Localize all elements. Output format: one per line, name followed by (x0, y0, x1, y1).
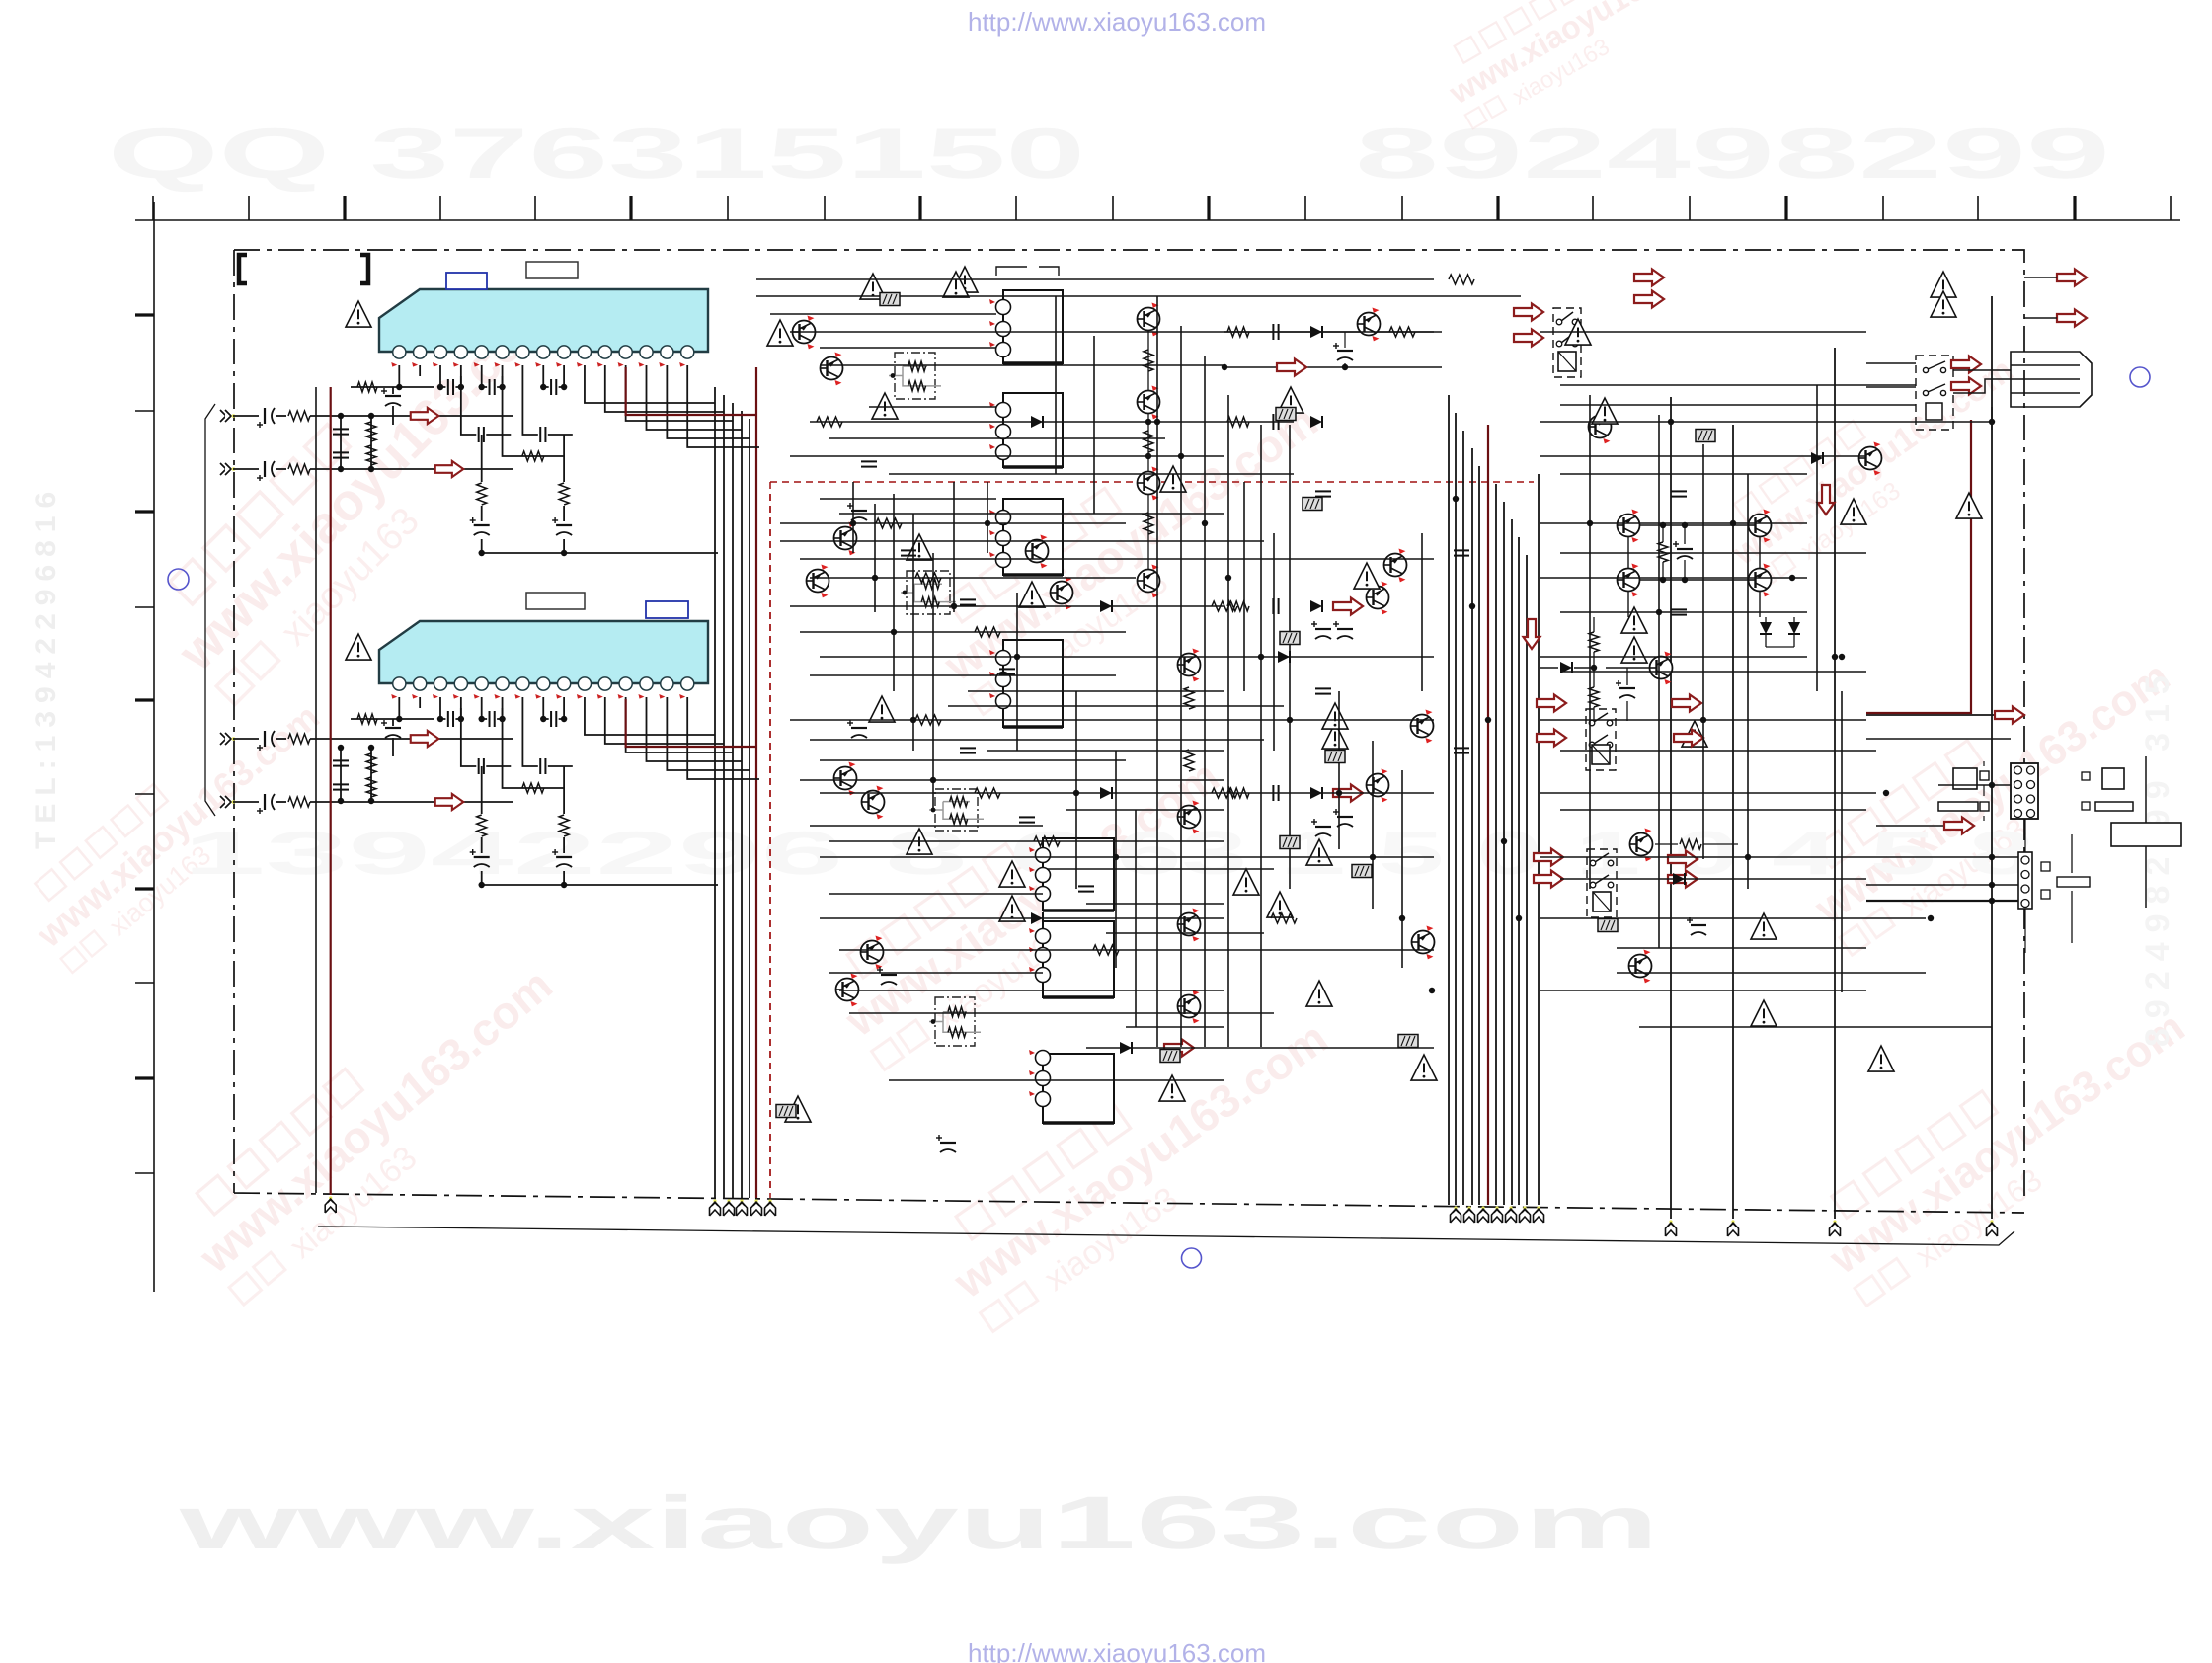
junction (1883, 790, 1889, 796)
wire (820, 856, 1434, 858)
connector chevron (1534, 1206, 1544, 1223)
transistor Q (1178, 990, 1201, 1024)
connector chevron (1464, 1206, 1475, 1223)
resistor (477, 483, 487, 505)
connector header CN9 (4pin) (2018, 852, 2032, 909)
resistor (477, 815, 487, 836)
coupled resistor network (dash-dot box) (889, 353, 941, 399)
wire (2145, 756, 2147, 908)
junction (561, 882, 567, 888)
red arrow (1514, 304, 1543, 321)
wire (481, 435, 483, 553)
junction (437, 716, 443, 722)
capacitor (1671, 491, 1687, 496)
red arrow (2057, 310, 2087, 327)
capacitor (electrolytic) (552, 517, 572, 535)
resistor (522, 451, 544, 461)
bar resistor (2095, 802, 2133, 811)
switch (1923, 384, 1945, 396)
wire (398, 365, 400, 376)
IC pin 13 (640, 677, 653, 690)
wire (1538, 474, 1540, 1205)
capacitor (1273, 598, 1278, 614)
transistor Q (793, 316, 816, 350)
junction (1287, 717, 1293, 723)
pad (2082, 772, 2090, 780)
red arrow (435, 794, 464, 810)
wire (392, 719, 394, 756)
wire (790, 331, 1434, 333)
resistor (288, 464, 310, 474)
connector chevron (1520, 1206, 1531, 1223)
wire (686, 365, 688, 376)
IC pin 1 (393, 346, 406, 358)
warning triangle (860, 274, 886, 299)
red arrow (411, 408, 439, 424)
registration circle (168, 569, 189, 590)
junction (1928, 915, 1934, 921)
junction (1178, 453, 1184, 459)
wire (686, 697, 688, 708)
resistor (fusible) (1276, 408, 1296, 421)
capacitor (999, 669, 1015, 673)
wire (B+ red) (330, 387, 332, 1195)
junction (479, 384, 485, 390)
resistor (fusible) (1696, 430, 1715, 442)
capacitor (electrolytic) (257, 731, 275, 751)
resistor (950, 797, 968, 807)
wire (1224, 331, 1442, 333)
red arrow (1277, 359, 1306, 376)
resistor (1449, 275, 1474, 284)
wire (1540, 577, 1807, 579)
transistor Q (1138, 467, 1160, 501)
wire (1540, 792, 1876, 794)
IC pin 8 (537, 346, 550, 358)
wire (1540, 917, 1926, 919)
warning triangle (767, 320, 793, 346)
red arrow (411, 731, 439, 747)
wire (800, 631, 1126, 633)
IC module block (1029, 921, 1114, 997)
warning triangle (1565, 319, 1591, 345)
red arrow (1951, 356, 1981, 373)
transistor Q (1026, 535, 1049, 569)
wire (839, 513, 1224, 515)
wire (B+ red) (626, 699, 756, 747)
junction (1730, 520, 1736, 526)
junction (1700, 717, 1706, 723)
wire (503, 708, 565, 788)
junction (499, 384, 505, 390)
IC pin 10 (578, 677, 591, 690)
label box (blue) (646, 601, 688, 618)
resistor (357, 382, 377, 392)
junction (1745, 854, 1751, 860)
wire (584, 697, 586, 708)
wire (987, 482, 988, 553)
ruler tick (135, 698, 154, 701)
capacitor (1273, 324, 1278, 340)
red arrow (1514, 330, 1543, 347)
connector chevron (1492, 1206, 1503, 1223)
transistor Q (1411, 710, 1434, 744)
wire (482, 884, 718, 886)
warning triangle (999, 896, 1025, 921)
junction (561, 716, 567, 722)
wire (276, 738, 286, 740)
IC module block (989, 640, 1063, 727)
ruler tick (439, 196, 441, 220)
resistor (950, 814, 968, 824)
wire (1606, 667, 1649, 669)
junction (1113, 854, 1119, 860)
connector chevron (737, 1199, 748, 1216)
watermark (1801, 976, 2212, 1315)
capacitor (1454, 748, 1469, 752)
wire (1540, 990, 1866, 991)
connector chevron (751, 1199, 762, 1216)
wire (666, 365, 668, 376)
junction (396, 716, 402, 722)
big block (2111, 823, 2181, 846)
input connector (220, 796, 235, 808)
coupled resistor network (dash-dot box) (929, 789, 984, 831)
ruler tick (1977, 196, 1979, 220)
red arrow (1668, 851, 1698, 868)
warning triangle (1621, 637, 1647, 663)
red arrow (1944, 818, 1974, 834)
wire (1866, 363, 1916, 387)
wire (502, 697, 504, 708)
ruler tick (1784, 196, 1787, 220)
wire (820, 656, 1434, 658)
resistor (1212, 788, 1237, 798)
wire (800, 779, 1224, 781)
wire (667, 376, 750, 438)
ruler tick (135, 1076, 154, 1079)
transistor Q (1178, 801, 1201, 834)
wire (741, 411, 743, 1198)
watermark (1710, 330, 2037, 598)
junction (1656, 609, 1662, 615)
wire (666, 697, 668, 708)
ruler tick (135, 313, 154, 316)
wire (419, 697, 421, 708)
wire (780, 522, 1126, 524)
relay (dashed box) (1587, 849, 1617, 917)
wire (340, 416, 342, 469)
wire (1180, 326, 1182, 1047)
warning triangle (1322, 703, 1348, 729)
transistor Q (861, 936, 884, 970)
red arrow (1537, 695, 1566, 712)
warning triangle (1267, 892, 1293, 917)
junction (458, 716, 464, 722)
warning triangle (1751, 913, 1777, 939)
wire (2011, 365, 2080, 393)
junction (1453, 496, 1459, 502)
junction (1145, 419, 1151, 425)
ruler tick (1401, 196, 1403, 220)
capacitor (electrolytic) (1333, 809, 1353, 827)
wire (968, 690, 1224, 692)
resistor (288, 797, 310, 807)
transistor Q (1412, 926, 1435, 960)
wire (440, 708, 461, 719)
resistor (559, 815, 569, 836)
wire (482, 376, 503, 387)
red arrow (1534, 849, 1563, 866)
wire (1540, 331, 1866, 333)
capacitor (electrolytic) (1687, 917, 1706, 935)
junction (1202, 520, 1208, 526)
wire (2024, 277, 2057, 318)
wire (563, 435, 565, 553)
transistor Q (1618, 510, 1640, 543)
wire (522, 376, 572, 435)
red arrow (435, 461, 464, 477)
warning triangle (1751, 1000, 1777, 1026)
wire (233, 801, 259, 803)
capacitor (333, 784, 349, 789)
wire (820, 498, 996, 500)
IC pin 8 (537, 677, 550, 690)
warning triangle (1411, 1055, 1437, 1080)
board outline (dash-dot) (234, 250, 2024, 1213)
wire (1372, 741, 1374, 909)
resistor (915, 573, 941, 583)
IC pin 11 (598, 346, 611, 358)
IC pin 7 (516, 346, 529, 358)
wire (1866, 738, 2011, 740)
capacitor (479, 758, 484, 774)
wire (1421, 533, 1423, 691)
diode (1031, 912, 1043, 924)
svg-text:http://www.xiaoyu163.com: http://www.xiaoyu163.com (968, 7, 1266, 37)
capacitor (electrolytic) (1333, 343, 1353, 360)
connector chevron (724, 1199, 735, 1216)
resistor (fusible) (1325, 751, 1345, 763)
wire (996, 267, 1059, 276)
junction (910, 717, 916, 723)
capacitor (540, 758, 545, 774)
wire (1670, 397, 1672, 1219)
bracket mark left (239, 255, 247, 283)
transistor Q (1051, 577, 1073, 610)
wire (1655, 843, 1738, 845)
diode (1120, 1042, 1132, 1054)
wire (1540, 719, 1866, 721)
wire (1747, 474, 1749, 889)
IC pin 11 (598, 677, 611, 690)
ruler tick (2170, 196, 2172, 220)
junction (891, 629, 897, 635)
bar resistor (2057, 877, 2090, 887)
wire (233, 415, 259, 417)
wire (646, 365, 648, 376)
wire (1560, 473, 1807, 475)
resistor (fusible) (776, 1105, 796, 1118)
ruler tick (135, 887, 154, 890)
resistor (366, 422, 376, 441)
watermark (11, 675, 348, 981)
IC pin 15 (681, 346, 694, 358)
IC pin 3 (434, 677, 446, 690)
junction (1501, 838, 1507, 844)
capacitor (540, 427, 545, 442)
wire (1455, 413, 1457, 1205)
junction (1989, 882, 1995, 888)
junction (1258, 654, 1264, 660)
wire (521, 365, 523, 376)
wire (461, 376, 511, 435)
warning triangle (943, 272, 969, 297)
junction (1989, 854, 1995, 860)
wire (839, 990, 1224, 991)
watermark (924, 985, 1360, 1343)
warning triangle (1322, 723, 1348, 749)
connector chevron (1506, 1206, 1517, 1223)
transistor Q (1138, 386, 1160, 420)
capacitor (electrolytic) (1616, 680, 1635, 698)
wire (790, 605, 1224, 607)
capacitor (479, 427, 484, 442)
wire (820, 347, 996, 349)
diode (1310, 326, 1322, 338)
wire (340, 748, 342, 801)
wire (790, 719, 1434, 721)
junction (1342, 364, 1348, 370)
wire (893, 494, 895, 691)
wire (810, 674, 1116, 676)
wire (1589, 395, 1591, 889)
wire (1224, 366, 1442, 368)
wire (2071, 834, 2073, 943)
wire (810, 421, 1294, 423)
wire (790, 455, 1224, 457)
wire (810, 739, 1264, 741)
wire (503, 376, 565, 456)
wire (1876, 825, 1953, 827)
resistor (915, 715, 941, 725)
warning triangle (952, 267, 978, 292)
bracket mark right (360, 255, 368, 283)
wire (820, 917, 1224, 919)
diode (1310, 787, 1322, 799)
resistor (1589, 687, 1599, 707)
junction (1660, 522, 1666, 528)
registration circle (2130, 367, 2150, 387)
wire (398, 376, 400, 387)
transistor Q (1358, 308, 1381, 342)
connector chevron (1451, 1206, 1461, 1223)
resistor (fusible) (1303, 498, 1322, 511)
wire (439, 697, 441, 708)
junction (479, 716, 485, 722)
ruler tick (135, 510, 154, 513)
connector chevron (1478, 1206, 1489, 1223)
wire (276, 468, 286, 470)
resistor (366, 777, 376, 797)
ruler tick (343, 196, 346, 220)
IC pin 10 (578, 346, 591, 358)
diode (1031, 416, 1043, 428)
resistor (1184, 687, 1194, 709)
junction (930, 777, 936, 783)
warning triangle (1278, 387, 1303, 413)
junction (1370, 854, 1376, 860)
IC module block (989, 499, 1063, 575)
IC pin 1 (393, 677, 406, 690)
wire (521, 697, 523, 708)
wire (310, 738, 513, 740)
junction (1989, 898, 1995, 904)
transistor Q (836, 974, 859, 1007)
transistor Q (821, 353, 843, 386)
transistor Q (1367, 582, 1389, 615)
resistor (1144, 513, 1153, 534)
wire (1526, 555, 1528, 1205)
resistor (366, 445, 376, 465)
wire (1834, 348, 1836, 1219)
wire (810, 825, 1043, 827)
wire (1135, 810, 1137, 1027)
wire (874, 504, 876, 612)
IC module block (1029, 1050, 1114, 1123)
pad (2041, 862, 2050, 871)
IC pin 12 (619, 346, 632, 358)
wire (1273, 533, 1275, 751)
capacitor (333, 452, 349, 457)
red arrow (1668, 871, 1698, 888)
resistor (1658, 542, 1668, 562)
warning triangle (1841, 499, 1866, 524)
wire (398, 708, 400, 719)
wire (482, 552, 718, 554)
resistor (921, 597, 939, 607)
ruler tick (135, 793, 154, 795)
wire (1766, 617, 1794, 647)
wire (1495, 484, 1497, 1205)
resistor (522, 783, 544, 793)
diode (1100, 787, 1112, 799)
pad (2082, 802, 2090, 810)
red arrow down (1818, 485, 1835, 515)
capacitor (1671, 609, 1687, 614)
wire (820, 364, 1224, 366)
wire (1540, 421, 1992, 423)
capacitor (333, 429, 349, 434)
ruler tick (1496, 196, 1499, 220)
wire (2024, 819, 2026, 953)
transistor Q (1178, 649, 1201, 682)
watermark (1431, 0, 1745, 137)
wire (829, 840, 1224, 842)
wire (1866, 884, 2018, 886)
warning triangle (907, 829, 932, 854)
wire (563, 365, 565, 376)
wire (543, 376, 564, 387)
wire (625, 365, 627, 376)
wire (1560, 671, 1866, 673)
wire (1628, 591, 1760, 617)
resistor (1034, 836, 1060, 846)
transistor Q (1859, 442, 1882, 476)
resistor (357, 714, 377, 724)
wire (1991, 407, 1993, 430)
junction (1682, 577, 1688, 583)
